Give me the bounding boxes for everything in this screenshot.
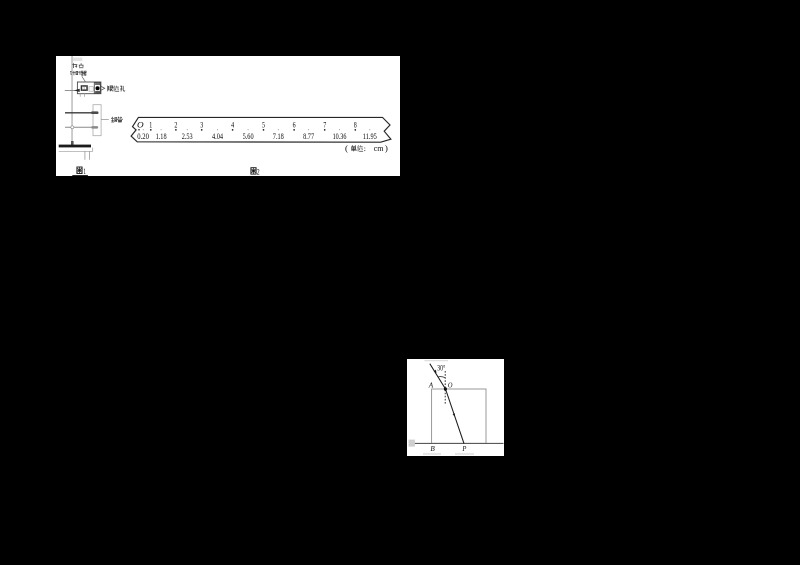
svg-text:10.36: 10.36 — [333, 132, 347, 141]
svg-text:5: 5 — [262, 119, 265, 129]
pole top cap — [73, 58, 82, 62]
tape distance labels — [137, 132, 376, 141]
label tong-guan (copper tube) — [111, 117, 122, 122]
refracted ray — [446, 389, 465, 444]
dot at O — [444, 387, 447, 390]
svg-text:3: 3 — [200, 119, 203, 129]
tube label line — [101, 119, 109, 121]
small gray block at left — [409, 440, 415, 447]
right open arrow — [101, 86, 105, 90]
paper tape line with left arrow — [65, 89, 78, 91]
svg-text:cm: cm — [374, 143, 384, 153]
unit note (dan-wei: cm) — [345, 143, 388, 153]
stand pole — [71, 56, 73, 141]
upper clamp bar — [65, 112, 93, 114]
table edge lines — [59, 148, 93, 152]
incident ray — [430, 364, 446, 389]
heavy base bar — [59, 145, 91, 148]
scan smudges under labels — [423, 453, 441, 455]
small light square in timer — [89, 87, 93, 92]
svg-text:1.18: 1.18 — [156, 132, 167, 141]
svg-text:6: 6 — [293, 119, 296, 129]
top scan artifact strip — [425, 360, 449, 361]
svg-text:2.53: 2.53 — [182, 132, 193, 141]
incident ray arrowhead — [434, 370, 437, 373]
label ji-shi-qi (timer) line2 — [70, 71, 86, 75]
svg-text:B: B — [430, 444, 435, 453]
svg-text:1: 1 — [149, 119, 152, 129]
svg-text:4: 4 — [231, 119, 234, 129]
timer right block — [94, 83, 100, 94]
timer outer box — [77, 82, 101, 94]
timer spool (bowtie) — [81, 85, 88, 91]
svg-text:(: ( — [345, 143, 348, 153]
normal dashed line — [444, 371, 446, 405]
svg-text:8.77: 8.77 — [303, 132, 314, 141]
pointer line from label to timer — [82, 76, 86, 81]
svg-text:A: A — [428, 380, 434, 389]
svg-text:O: O — [137, 119, 144, 129]
label da-dian (timer) line1 — [72, 63, 83, 68]
legs under timer — [80, 94, 84, 97]
paper tape polygon — [131, 117, 391, 142]
table surface line — [409, 442, 504, 444]
tape numbers 1-8 — [149, 119, 356, 129]
label tu2 (fig 2) glyph — [251, 167, 260, 177]
svg-text:7: 7 — [323, 119, 326, 129]
circle joint on pole — [71, 126, 74, 129]
svg-text:11.95: 11.95 — [363, 132, 377, 141]
svg-text:): ) — [385, 143, 388, 153]
refracted ray arrowhead — [453, 413, 455, 416]
lower clamp capsule — [91, 126, 98, 129]
label tu1 (fig 1) glyph — [72, 166, 88, 176]
svg-text:0.20: 0.20 — [137, 132, 149, 141]
svg-text:O: O — [448, 381, 453, 390]
svg-text:8: 8 — [354, 119, 357, 129]
svg-text:2: 2 — [257, 167, 260, 176]
tape timing dots — [138, 129, 356, 131]
svg-text:P: P — [462, 444, 467, 453]
black dot (hole) — [96, 86, 100, 90]
pole base stub — [71, 141, 74, 145]
upper clamp capsule — [91, 111, 99, 114]
copper tube rectangle — [93, 105, 101, 136]
figure 1 white region — [56, 56, 400, 176]
label xian-wei-kong (limit hole) — [108, 86, 125, 92]
figure 3 white region (refraction) — [407, 359, 504, 456]
lower clamp bar — [65, 126, 91, 128]
svg-text:2: 2 — [174, 119, 177, 129]
svg-text:7.18: 7.18 — [273, 132, 284, 141]
svg-text:5.60: 5.60 — [243, 132, 254, 141]
table legs — [85, 151, 90, 160]
svg-text:4.04: 4.04 — [212, 132, 223, 141]
svg-text:1: 1 — [83, 166, 86, 176]
glass block square — [432, 389, 486, 443]
30 degree arc — [438, 376, 445, 379]
svg-text:30°: 30° — [437, 363, 445, 373]
